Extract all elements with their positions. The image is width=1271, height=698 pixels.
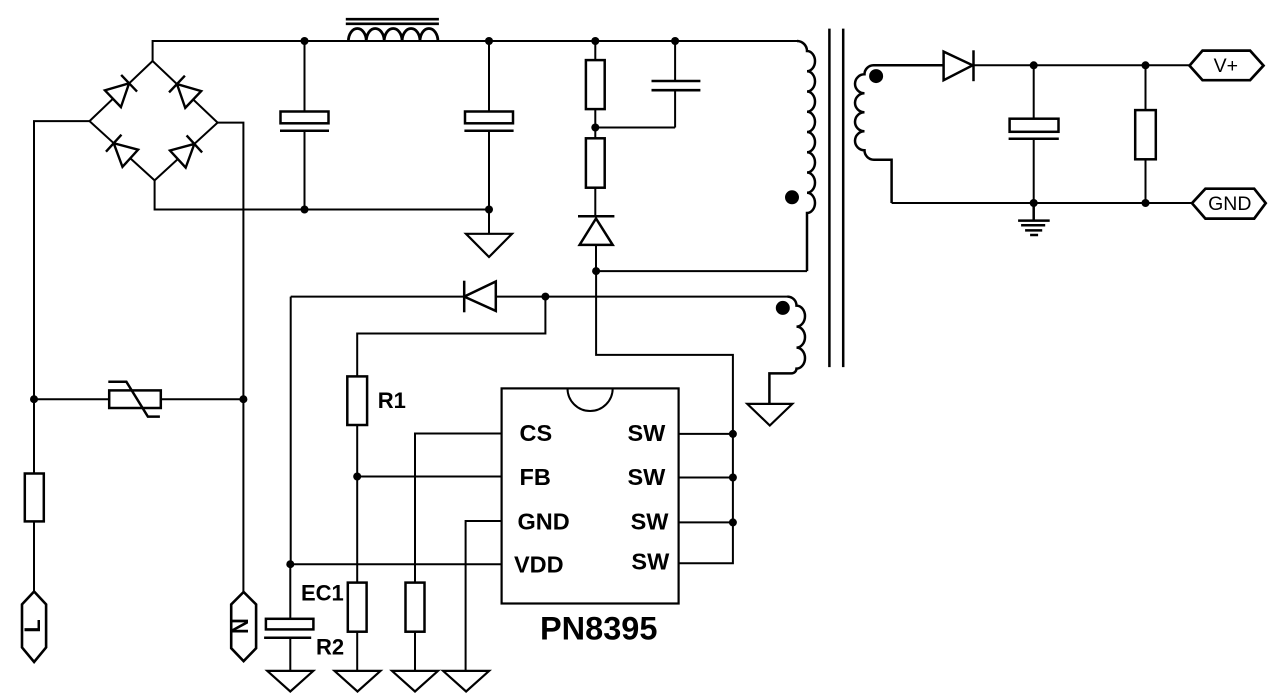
- node output res bottom: [1142, 199, 1150, 207]
- svg-text:R2: R2: [316, 635, 344, 660]
- bridge diode D upper-left: [105, 75, 137, 107]
- svg-text:SW: SW: [628, 420, 667, 446]
- wire to clamp diode: [594, 188, 596, 217]
- node FB junction: [353, 473, 361, 481]
- node varistor-L junction: [30, 395, 38, 403]
- node SW bus 1: [729, 430, 737, 438]
- wire output bottom rail: [892, 202, 1192, 204]
- node snubber RC junction: [591, 124, 599, 132]
- capacitor C2: [464, 112, 513, 131]
- svg-text:V+: V+: [1214, 55, 1238, 77]
- varistor RV1: [108, 382, 160, 417]
- wire bottom DC- rail: [155, 180, 489, 209]
- connector N: [231, 592, 256, 661]
- connector V+: [1190, 51, 1264, 81]
- capacitor snubber C: [652, 81, 701, 90]
- capacitor snubber C top wire: [674, 41, 676, 81]
- capacitor EC1: [264, 619, 313, 638]
- wire R1 bottom to R2: [356, 425, 358, 583]
- capacitor C2 top wire: [488, 41, 490, 112]
- wire snubber left branch top: [594, 41, 596, 60]
- wire N line from bridge right vertex down: [218, 123, 244, 592]
- capacitor C1: [280, 112, 329, 131]
- wire GND pin down: [466, 521, 502, 671]
- ground under aux winding: [747, 404, 792, 426]
- capacitor output top wire: [1033, 65, 1035, 118]
- wire snubber node to cap: [595, 127, 675, 129]
- connector GND: [1192, 189, 1266, 219]
- capacitor C2 bottom wire: [488, 131, 490, 234]
- svg-text:SW: SW: [628, 464, 667, 490]
- transformer T1 aux winding: [769, 297, 805, 404]
- capacitor output bottom wire: [1033, 139, 1035, 203]
- wire VDD pin: [290, 563, 501, 565]
- transformer T1 primary phase dot: [785, 190, 799, 204]
- ground under EC1: [267, 671, 313, 692]
- ground under R2: [335, 671, 381, 692]
- IC U1 notch: [568, 388, 613, 411]
- diode clamp (cathode up): [578, 216, 614, 245]
- connector L: [22, 592, 46, 663]
- wire varistor row: [34, 398, 243, 400]
- svg-text:L: L: [20, 619, 45, 632]
- wire CS pin to resistor: [415, 434, 502, 583]
- inductor L1 core bars: [346, 19, 439, 24]
- wire FB/aux rail: [291, 296, 788, 298]
- node C1 top: [301, 37, 309, 45]
- diode output rectifier: [944, 50, 974, 81]
- svg-text:GND: GND: [518, 509, 570, 535]
- node SW top junction: [592, 267, 600, 275]
- svg-text:R1: R1: [378, 388, 406, 413]
- resistor snubber R lower: [586, 138, 605, 187]
- ground under CS resistor: [392, 671, 438, 692]
- svg-text:VDD: VDD: [514, 552, 564, 578]
- node varistor-N junction: [239, 395, 247, 403]
- wire SW pin stubs: [679, 434, 733, 523]
- capacitor C1 top wire: [304, 41, 306, 112]
- wire clamp diode to SW node: [595, 245, 597, 271]
- svg-text:SW: SW: [631, 509, 670, 535]
- fuse F1: [25, 474, 44, 522]
- node SW bus 3: [729, 518, 737, 526]
- wire R2 to ground: [356, 632, 358, 671]
- resistor R1: [347, 376, 367, 425]
- wire top DC+ rail from bridge to transformer: [153, 41, 797, 61]
- node VDD junction: [286, 560, 294, 568]
- transformer T1 primary winding: [797, 41, 815, 271]
- resistor output top wire: [1145, 65, 1147, 110]
- ground under C2: [466, 234, 512, 257]
- wire FB pin: [357, 476, 501, 478]
- svg-text:EC1: EC1: [301, 581, 344, 606]
- svg-text:N: N: [228, 618, 253, 634]
- node C2 top: [485, 37, 493, 45]
- diode FB (pointing left): [464, 281, 496, 313]
- wire FB node down to R1: [357, 297, 545, 377]
- wire L line from bridge left vertex down: [34, 121, 90, 473]
- wire EC1 to ground: [289, 638, 291, 671]
- node top rail snubber C: [671, 37, 679, 45]
- transformer T1 core: [829, 29, 843, 368]
- earth ground output: [1018, 203, 1050, 235]
- svg-text:FB: FB: [520, 464, 551, 490]
- resistor R2: [348, 583, 367, 632]
- svg-text:GND: GND: [1208, 193, 1251, 215]
- svg-text:SW: SW: [631, 549, 670, 575]
- bridge diode D upper-right: [169, 76, 201, 108]
- svg-text:CS: CS: [520, 420, 553, 446]
- node output res top: [1142, 61, 1150, 69]
- svg-text:PN8395: PN8395: [540, 611, 657, 647]
- wire VDD node to EC1: [289, 564, 291, 619]
- transformer T1 secondary phase dot: [869, 69, 883, 83]
- wire snubber mid: [594, 109, 596, 138]
- IC U1 PN8395 body: [502, 388, 679, 603]
- node top rail snubber R: [591, 37, 599, 45]
- capacitor C1 bottom wire: [304, 131, 306, 210]
- node C1 bottom: [301, 206, 309, 214]
- inductor L1 coil: [348, 29, 437, 42]
- resistor CS: [406, 583, 425, 632]
- wire SW node down to SW bus: [596, 271, 733, 563]
- capacitor output: [1009, 119, 1059, 139]
- resistor output bottom wire: [1145, 159, 1147, 203]
- bridge rectifier BR1 diamond: [90, 61, 218, 180]
- node SW bus 2: [729, 474, 737, 482]
- ground under GND pin: [443, 671, 489, 692]
- node output cap top: [1030, 61, 1038, 69]
- transformer T1 secondary winding: [855, 65, 943, 203]
- bridge diode D lower-right: [170, 135, 202, 167]
- node C2 bottom: [485, 206, 493, 214]
- wire CS resistor to ground: [414, 632, 416, 671]
- transformer T1 aux phase dot: [776, 301, 790, 315]
- resistor output load: [1135, 110, 1156, 159]
- wire primary bottom to SW node: [596, 270, 807, 272]
- wire VDD left branch: [290, 297, 292, 565]
- wire output V+ rail: [974, 64, 1190, 66]
- capacitor snubber C bottom wire: [674, 90, 676, 127]
- bridge diode D lower-left: [106, 135, 138, 167]
- wire fuse to L connector: [33, 521, 35, 591]
- node FB diode junction: [541, 293, 549, 301]
- node output cap bottom: [1030, 199, 1038, 207]
- resistor snubber R upper: [586, 60, 605, 109]
